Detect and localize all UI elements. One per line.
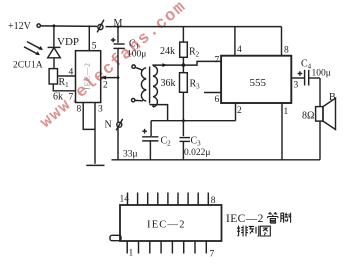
wire R1 bottom to pin7	[53, 84, 75, 91]
wire pin2 of 555	[235, 103, 237, 121]
capacitor C2	[142, 121, 158, 160]
package bottom pins	[127, 241, 206, 254]
capacitor C3	[180, 138, 191, 160]
wire pin4 of 555	[234, 27, 236, 56]
wire R2 bottom to node	[182, 57, 184, 72]
wire pin7 of 555	[183, 61, 221, 65]
package tab	[110, 235, 121, 240]
svg-text:VDP: VDP	[57, 36, 79, 48]
svg-text:2: 2	[103, 81, 108, 91]
package top pins	[128, 193, 209, 206]
node bus R3	[182, 119, 185, 122]
wire mid bus	[151, 120, 235, 122]
node R2 R3 junction	[182, 63, 186, 67]
caption char tu	[260, 226, 270, 236]
svg-text:2CU1A: 2CU1A	[13, 61, 43, 71]
photodiode VDP 2CU1A	[48, 47, 61, 68]
svg-text:8Ω: 8Ω	[302, 111, 314, 122]
wire pin3 of IC down	[94, 103, 96, 164]
wire pin8 of IC to ground	[83, 103, 95, 130]
svg-text:7: 7	[69, 93, 74, 103]
svg-text:8: 8	[77, 105, 82, 115]
wire bottom rail	[112, 159, 321, 161]
svg-text:7: 7	[215, 56, 220, 66]
caption char lie	[249, 226, 259, 237]
svg-text:2: 2	[237, 106, 242, 116]
IEC-2 package outline	[120, 205, 222, 241]
svg-text:100μ: 100μ	[127, 50, 146, 60]
wire diode branch from rail	[53, 26, 55, 48]
wire pin1 of 555	[281, 103, 283, 160]
switch M	[97, 20, 104, 33]
svg-text:3: 3	[98, 105, 103, 115]
light arrows	[24, 42, 43, 56]
capacitor C1	[111, 27, 125, 78]
svg-text:8: 8	[284, 46, 289, 56]
wire pin8 of 555	[281, 27, 283, 56]
svg-text:4: 4	[237, 45, 242, 55]
svg-text:B: B	[329, 92, 336, 103]
svg-text:5: 5	[92, 42, 97, 52]
svg-text:14: 14	[120, 195, 130, 205]
svg-text:1: 1	[129, 249, 134, 259]
wire pin5 to rail	[88, 26, 90, 50]
left winding	[132, 65, 135, 68]
svg-text:0.022μ: 0.022μ	[184, 148, 210, 158]
speaker B	[316, 78, 336, 160]
arrow on wire	[162, 63, 167, 67]
capacitor C4	[298, 70, 320, 86]
svg-text:8: 8	[211, 196, 216, 206]
switch N	[116, 78, 123, 160]
caption char pai	[237, 226, 248, 237]
svg-text:4: 4	[69, 68, 74, 78]
resistor R3	[180, 73, 188, 93]
node pin5 rail junction	[88, 25, 90, 27]
svg-text:N: N	[105, 120, 112, 131]
wire pin4	[58, 75, 76, 77]
caption char guan	[268, 212, 278, 223]
right winding	[153, 66, 157, 107]
transformer T1	[132, 65, 158, 107]
+12V terminal	[37, 24, 40, 27]
svg-text:IEC—2: IEC—2	[147, 220, 186, 231]
svg-text:33μ: 33μ	[123, 150, 138, 160]
core	[149, 67, 151, 104]
wire pin2 of IC	[101, 77, 118, 79]
arrow pin2	[101, 76, 106, 80]
svg-text:6: 6	[215, 95, 220, 105]
wire top rail left segment	[40, 25, 97, 28]
wire right winding top to node	[153, 64, 183, 67]
node diode top	[52, 24, 55, 27]
watermark www.elecfans.com	[37, 0, 191, 133]
wire right winding bottom zigzag	[150, 105, 168, 121]
resistor R1	[49, 69, 57, 84]
svg-text:1: 1	[284, 107, 289, 117]
svg-text:24k: 24k	[160, 46, 175, 57]
wire pin3 of 555	[291, 77, 304, 79]
IC U1 IEC-2 box	[76, 51, 101, 103]
svg-text:7: 7	[210, 250, 215, 260]
svg-text:6k: 6k	[53, 92, 63, 103]
svg-text:555: 555	[250, 77, 267, 89]
node pin2 junction	[117, 76, 120, 79]
svg-text:3: 3	[294, 81, 299, 91]
wire R2 top	[182, 27, 184, 42]
wire pin6 stub	[204, 92, 221, 94]
svg-text:IEC—2: IEC—2	[226, 213, 264, 225]
resistor R2	[180, 42, 188, 57]
wire top rail right segment	[106, 26, 282, 28]
caption char jiao	[280, 213, 290, 223]
IC U2 555 box	[221, 56, 291, 103]
svg-text:+12V: +12V	[8, 21, 32, 32]
svg-text:100μ: 100μ	[312, 69, 331, 79]
ground	[86, 164, 104, 166]
svg-text:36k: 36k	[161, 78, 176, 89]
wire R3 bottom to C3	[182, 92, 184, 136]
svg-text:IEC—2: IEC—2	[83, 62, 92, 89]
node C1 rail junction	[117, 25, 120, 28]
